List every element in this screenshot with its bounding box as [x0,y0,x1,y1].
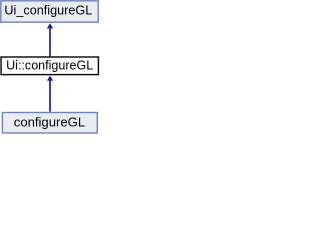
class box Ui::configureGL [1,57,98,75]
background [0,0,100,136]
class box Ui_configureGL [1,1,98,22]
inheritance arrow to Ui_configureGL [47,23,53,56]
inheritance arrow to Ui::configureGL [47,76,53,112]
svg-text:configureGL: configureGL [14,114,85,129]
svg-text:Ui_configureGL: Ui_configureGL [4,3,92,17]
svg-text:Ui::configureGL: Ui::configureGL [6,58,93,72]
class box configureGL [2,113,97,134]
